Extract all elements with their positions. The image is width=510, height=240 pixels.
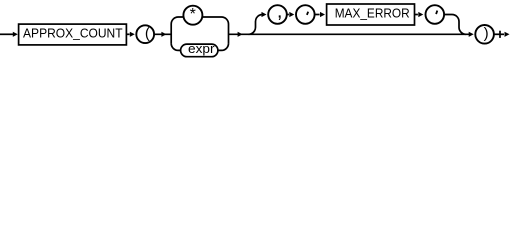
arrowhead into APPROX_COUNT: [13, 32, 18, 37]
wire box to (: [126, 33, 129, 35]
delimiter circle (: [136, 25, 154, 43]
svg-text:expr: expr: [188, 41, 215, 56]
arrowhead into MAX_ERROR: [320, 12, 325, 17]
arrowhead end: [505, 32, 510, 37]
arrowhead after rejoin: [238, 32, 243, 37]
arrowhead into (: [130, 32, 135, 37]
arrowhead into ): [469, 32, 474, 37]
svg-text:): ): [484, 25, 489, 42]
keyword box APPROX_COUNT: [19, 24, 127, 45]
svg-text:*: *: [190, 6, 196, 23]
apostrophe tick in first ': [307, 12, 308, 15]
wire * to rejoin down-arc: [202, 17, 228, 24]
wire ' to MAX_ERROR: [315, 14, 320, 16]
wire ) to end: [494, 33, 504, 35]
arrowhead into ,: [262, 12, 267, 17]
wire split up-arc to *: [171, 17, 183, 24]
circle *: [183, 6, 202, 25]
keyword box MAX_ERROR: [327, 4, 415, 25]
wire expr to rejoin up-arc: [218, 43, 229, 50]
branch rejoin bar: [228, 24, 230, 43]
arrowhead into first ': [289, 12, 294, 17]
apostrophe tick in second ': [436, 11, 437, 15]
wire rejoin to ): [229, 33, 471, 35]
svg-text:MAX_ERROR: MAX_ERROR: [335, 6, 410, 20]
svg-text:APPROX_COUNT: APPROX_COUNT: [23, 27, 123, 41]
arrowhead at branch split: [161, 32, 166, 37]
circle ,: [268, 5, 287, 24]
delimiter circle ): [475, 25, 494, 44]
svg-text:(: (: [145, 25, 150, 42]
terminator tick: [499, 31, 501, 38]
wire MAX_ERROR to ': [415, 14, 418, 16]
svg-text:,: ,: [277, 0, 283, 22]
oval expr: [181, 44, 218, 57]
branch split bar: [170, 24, 172, 43]
wire optional down-curve: [444, 15, 466, 35]
wire start: [0, 33, 13, 35]
wire optional up-curve: [249, 15, 263, 35]
wire , to ': [287, 14, 289, 16]
circle second ': [426, 5, 445, 24]
circle first ': [296, 5, 315, 24]
arrowhead into second ': [418, 12, 423, 17]
wire ( to branch split: [154, 33, 171, 35]
wire split down-arc to expr: [171, 43, 180, 50]
